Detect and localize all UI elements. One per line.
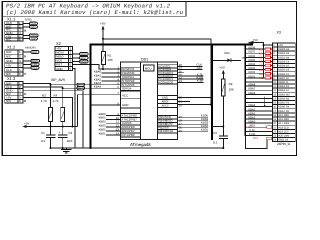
GND bus (thick, left) [90,45,92,148]
svg-text:KD08: KD08 [248,47,255,50]
wire X1.1 pin2 to DAT flag [23,26,30,28]
svg-text:KBD1-A3: KBD1-A3 [278,52,289,55]
svg-text:N/C: N/C [6,55,12,59]
svg-text:KBA4-N3: KBA4-N3 [278,98,289,101]
wire MCU pin8 GND to bus [91,104,121,106]
pull-up rail for keyboard lines [263,45,265,79]
svg-text:R3: R3 [42,94,46,98]
title block [2,2,186,17]
svg-text:DAT: DAT [31,25,37,29]
junction X1.3 +5V on rail [72,126,74,128]
svg-text:KD01: KD01 [248,75,255,78]
svg-text:KBA7: KBA7 [248,88,255,91]
wire bus bottom to R14 [245,136,267,149]
junction R2/C3 node [222,126,224,128]
svg-text:R2: R2 [229,82,233,86]
wire X2 pin4 to flag [73,61,80,63]
wire X1.3 DAT row to node [23,83,51,84]
wire +5V stem to rail [102,29,104,52]
svg-text:PB1/OC1A: PB1/OC1A [158,129,173,133]
wire MCU pin3 [102,76,121,78]
wire node to bus [212,126,223,128]
net flag GND [31,59,40,62]
MCU right cells top (pins 28-23) [158,65,178,84]
net flag DAT [77,83,85,86]
junction C1 gnd [50,147,52,149]
svg-text:KD05: KD05 [248,59,255,62]
svg-text:X1.3: X1.3 [7,76,16,81]
net flag DAT [31,51,39,54]
X3 pin1 +5V wire [264,44,273,46]
svg-text:+5V: +5V [220,65,225,69]
svg-text:MCU: MCU [145,67,152,71]
svg-text:+5V: +5V [6,63,11,67]
net flag MOSI [80,60,89,63]
svg-text:R4: R4 [54,94,58,98]
wire DAT net to MCU pin5 [51,84,121,86]
svg-text:KBA4: KBA4 [94,85,102,89]
net flag SCK [80,56,89,59]
connector X3 row grid [273,47,296,138]
svg-text:ATmega48: ATmega48 [130,142,151,147]
svg-text:KBA1: KBA1 [248,117,255,120]
resistor R1 [102,52,106,65]
net flag GND [29,34,38,37]
svg-text:R13: R13 [247,125,253,129]
svg-text:20: 20 [179,103,183,107]
wire MCU AREF stub [178,101,191,103]
wire MCU pin28 to CLK label [178,65,203,67]
junction CLK/R4 [62,87,64,89]
svg-text:A15-KB8: A15-KB8 [278,114,289,117]
wire RESET to MCU pin1 [103,68,121,70]
svg-text:KD01: KD01 [201,128,208,132]
N/C marks [24,30,26,102]
svg-text:KD07: KD07 [248,51,255,54]
MCU left cells top (pins 1-6) [121,67,141,90]
svg-text:GND: GND [122,103,128,107]
svg-text:0.1: 0.1 [213,140,218,144]
svg-text:24PIN_G: 24PIN_G [277,142,291,146]
wire X1.1 pin4 to GND flag [23,34,30,36]
capacitor C1 [50,127,52,149]
svg-text:ISP_AVR: ISP_AVR [51,78,66,82]
svg-text:KD03: KD03 [248,67,255,70]
svg-text:KBA7-S5: KBA7-S5 [278,110,289,113]
capacitor C2 (electrolytic) [62,127,64,149]
wire X1.1 pin5 to +5V flag [23,38,30,40]
svg-text:KBD0-A2: KBD0-A2 [278,48,289,51]
svg-text:MOSI: MOSI [80,61,87,64]
svg-text:KD02: KD02 [248,71,255,74]
net labels at bus taps [248,47,255,136]
svg-text:A18-LED: A18-LED [278,126,289,129]
svg-text:X1.2: X1.2 [7,45,16,50]
junction C3 gnd rail [222,147,224,149]
resistor R12 (pull-up, red) [265,77,270,79]
svg-text:PC0/ADC0: PC0/ADC0 [158,80,173,84]
resistor R5 (pull-up, red) [265,48,270,50]
wire rail to VCC pin7 [78,95,121,127]
+5V thin rail (top) [103,38,211,40]
ground symbol [61,148,71,153]
bus vertical (middle right) [211,45,213,140]
svg-text:N/C: N/C [6,38,12,42]
+5V rail [26,126,78,128]
resistor R10 (pull-up, red) [265,68,270,70]
wire X1.1 pin1 to CLK flag [23,23,30,25]
wire MCU pin25 [178,75,204,77]
svg-text:C1: C1 [41,131,45,135]
wires bus to X3 rows [245,49,272,135]
wire MCU pin26 stub [178,72,185,74]
+5V bus (thick, top) [90,44,253,46]
wire X1.3 +5V row down to +5V rail [23,98,73,127]
IC DD1 MCU body [121,62,178,140]
connector X1.3 [5,82,23,103]
net labels KB06-KB01 [99,112,106,136]
wire MCU AVCC to +5V rail riser [178,39,211,105]
svg-text:miniDIN: miniDIN [25,45,36,49]
junction R3 on rail [50,126,52,128]
MCU left pin cell column [140,62,142,140]
resistor R13 (red) [267,126,272,128]
svg-text:DAT: DAT [32,50,38,54]
svg-text:X2: X2 [56,41,62,46]
svg-text:SCK: SCK [81,57,86,60]
svg-text:KBA2: KBA2 [248,112,255,115]
svg-text:+: + [59,131,61,135]
wire MCU pin23 [178,81,204,83]
svg-text:KBA3-M3: KBA3-M3 [278,93,290,96]
svg-text:K.CL: K.CL [249,129,255,132]
svg-text:10.0: 10.0 [67,139,73,143]
MCU right pin numbers [179,63,183,133]
svg-text:CLK: CLK [78,86,84,90]
svg-text:DAT: DAT [197,66,203,70]
wire X1.3 CLK row to node [23,87,63,88]
resistor R7 (pull-up, red) [265,56,270,58]
junction R4 on rail [62,126,64,128]
svg-text:T0/PD4: T0/PD4 [121,87,132,91]
MCU sub-box label [144,65,155,71]
junction +5V stem/rail [102,38,104,40]
svg-text:KBA5-P4: KBA5-P4 [278,102,289,105]
net flag CLK [29,22,37,25]
wire MCU pin24 [178,78,204,80]
svg-text:10K: 10K [108,58,113,62]
resistor R2 [221,79,225,96]
svg-text:0.1: 0.1 [41,139,46,143]
svg-text:KBA2-L2: KBA2-L2 [278,89,289,92]
wire MCU pin27 to DAT label [178,69,203,71]
svg-text:VD1: VD1 [224,51,230,55]
svg-text:A16-KB9: A16-KB9 [278,118,289,121]
wire X1.3 GND row down to ground rail [23,91,83,148]
wire R2 bottom down [222,96,224,136]
net flag +5V [31,63,39,66]
svg-text:GND: GND [162,97,168,100]
net flag CLK [77,87,85,90]
MCU VCC cell [121,91,141,108]
svg-text:KBA0: KBA0 [248,121,255,124]
MCU right cells mid (GND AREF AVCC) [158,96,178,108]
svg-text:K.DA: K.DA [249,133,255,136]
svg-text:KBA6: KBA6 [248,92,255,95]
svg-text:CLK: CLK [32,66,38,70]
svg-text:KBD4-D5: KBD4-D5 [278,65,290,68]
svg-text:KD04: KD04 [248,63,255,66]
svg-text:KBD6-F6: KBD6-F6 [278,73,289,76]
svg-text:A19-LCP: A19-LCP [278,130,289,133]
connector X2 [55,46,73,70]
svg-text:R14: R14 [253,137,258,140]
junction rail top [263,44,265,46]
svg-text:GND: GND [56,67,62,71]
resistor R4 [62,88,64,126]
svg-text:KBA3: KBA3 [248,108,255,111]
svg-text:N/C: N/C [6,99,12,103]
wire X1.2 pin5 to CLK flag [23,67,31,69]
svg-text:KBD2-B4: KBD2-B4 [278,56,289,59]
net labels KD05-KD01 [201,114,208,132]
wire X2 pin3 to flag [73,57,80,59]
junction gnd bus on rail [90,147,92,149]
wires MCU pins 9-14 stubs [106,115,121,134]
junction C2 gnd [62,147,64,149]
svg-text:C2: C2 [68,131,72,135]
junction R1/RESET [102,68,104,70]
net flag MISO [80,53,89,56]
wire X2 GND row down [73,69,76,148]
resistor R6 (pull-up, red) [265,52,270,54]
wire row link [264,96,266,106]
svg-text:KB01: KB01 [99,131,106,135]
svg-text:KBA4: KBA4 [248,104,255,107]
wire MCU pin2 [102,72,121,74]
svg-text:10K: 10K [229,88,234,92]
svg-text:K.B8: K.B8 [197,79,204,83]
MCU right pin cell column [157,62,159,140]
net flag DAT [29,25,37,28]
connector X1.2 [5,50,23,76]
svg-text:KBD5-E6: KBD5-E6 [278,69,289,72]
resistor R8 (pull-up, red) [265,60,270,62]
resistor R9 (pull-up, red) [265,64,270,66]
svg-text:MISO: MISO [80,53,86,56]
wire X2 pin2 to flag [73,53,80,55]
svg-text:+5V: +5V [278,44,283,47]
svg-text:AVCC: AVCC [162,104,169,107]
svg-text:GND: GND [6,59,14,63]
wire MCU GND pin22 to bus [178,97,213,99]
svg-text:KBA0-J1: KBA0-J1 [278,81,289,84]
svg-text:C3: C3 [213,131,217,135]
wire X2 RST row to reset node [73,65,104,70]
MCU left pin numbers [116,66,120,136]
resistor R14 (red) [267,137,272,139]
MCU left cells bottom (pins 9-14) [121,113,141,136]
svg-text:4.7K: 4.7K [41,99,47,103]
svg-text:VCC: VCC [122,94,128,98]
resistor R11 (pull-up, red) [265,73,270,75]
junction AVCC riser [210,104,212,106]
svg-text:A20-LNM: A20-LNM [278,135,289,138]
connector X3 [273,43,296,142]
svg-text:+5V: +5V [31,37,36,41]
capacitor C3 [219,136,228,138]
connector X1.1 [5,21,23,41]
svg-text:KBA8: KBA8 [248,84,255,87]
svg-text:KD06: KD06 [248,55,255,58]
wire X1.2 pin1 to DAT flag [23,51,31,53]
frame border [2,2,296,156]
svg-text:4.7K: 4.7K [53,99,59,103]
junction DAT/R3 [50,84,52,86]
svg-text:+5V: +5V [242,56,247,60]
wire X1.2 pin4 to +5V flag [23,63,31,65]
wire X1.2 pin3 to GND flag [23,60,31,62]
wires MCU pins 19-15 to labels [178,117,209,131]
wire CLK net to MCU pin6 [63,87,121,89]
net flag CLK [31,66,39,69]
svg-text:CLK: CLK [6,68,12,72]
MCU right cells bottom (pins 19-15) [158,115,178,132]
svg-text:KBA6-R4: KBA6-R4 [278,106,289,109]
wire MCU pin4 [102,80,121,82]
svg-text:KBD3-C4: KBD3-C4 [278,61,290,64]
bus vertical (right) [244,45,246,136]
svg-text:A17-RES: A17-RES [278,122,289,125]
ground rail [51,147,224,149]
svg-text:DD1: DD1 [141,57,148,61]
svg-text:ICP1/PB0: ICP1/PB0 [121,133,135,137]
svg-text:KBD7-H7: KBD7-H7 [278,77,290,80]
svg-text:X3: X3 [277,31,281,35]
svg-text:R12: R12 [259,76,265,80]
svg-text:KBA1-K2: KBA1-K2 [278,85,289,88]
svg-text:AREF: AREF [162,101,170,104]
svg-text:DAT: DAT [6,50,12,54]
svg-text:+5V: +5V [24,122,29,126]
resistor R3 [50,85,52,127]
net flag +5V [29,37,37,40]
svg-text:(c) 2008 Kamil Karimov (caro: (c) 2008 Kamil Karimov (caro) E-mail: k2… [6,9,184,16]
